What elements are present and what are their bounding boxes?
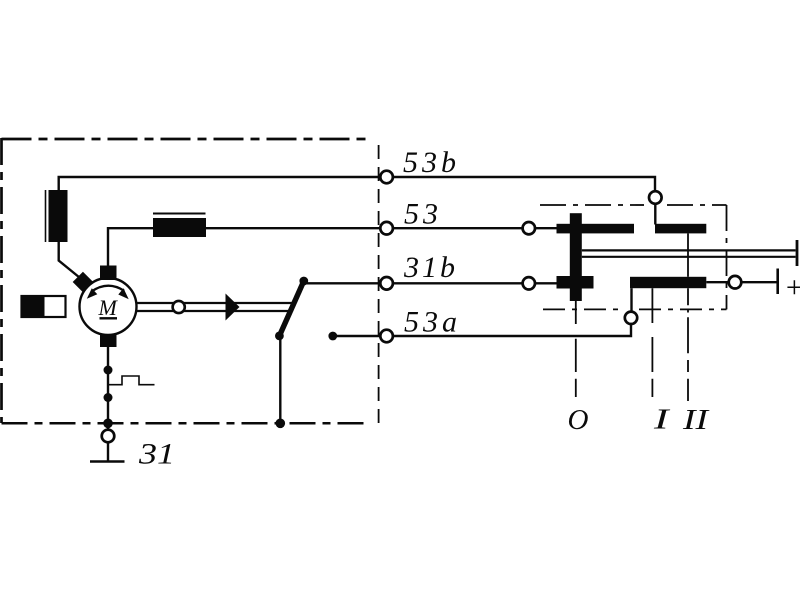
motor magnet block outline <box>22 296 66 317</box>
drive shaft double line upper <box>137 302 293 304</box>
svg-text:31b: 31b <box>403 251 455 284</box>
actuator rod lower line <box>582 256 796 258</box>
terminal 53 <box>380 222 393 235</box>
wire output terminal to battery bar <box>742 281 777 283</box>
contact bar 53b <box>655 224 706 234</box>
brush top <box>100 266 117 281</box>
switch terminal 53a bottom <box>625 312 637 324</box>
switch wire 31b into contact cross <box>535 282 557 284</box>
svg-text:M: M <box>98 295 119 320</box>
unit box bottom border <box>2 422 369 425</box>
motor magnet block filled half <box>22 296 45 317</box>
terminal 31 (ground) <box>102 430 115 443</box>
terminal 53a <box>380 330 393 343</box>
switch box right border <box>726 205 728 309</box>
rotation arrowhead right <box>118 288 128 299</box>
shaft joint circle <box>173 301 185 313</box>
junction dot lever on border <box>276 419 286 429</box>
brush bottom <box>100 335 117 348</box>
motor body M1 <box>80 278 137 335</box>
wire 31b terminal to switch <box>393 282 523 284</box>
battery feed end bar <box>776 269 779 295</box>
motor letter underline <box>100 317 118 319</box>
wire 53 terminal to switch <box>393 227 523 229</box>
lever pivot dot bottom <box>275 332 284 341</box>
junction dot ground on border <box>103 419 113 429</box>
svg-text:II: II <box>682 405 711 436</box>
wire 53a dot to terminal and to switch circle riser <box>333 325 631 337</box>
terminal 31b <box>380 277 393 290</box>
actuator rod end bar <box>796 240 799 266</box>
terminal 53b <box>380 171 393 184</box>
svg-text:53b: 53b <box>403 146 456 179</box>
svg-text:O: O <box>568 405 589 436</box>
unit box right border (terminal strip) <box>378 145 380 424</box>
switch box top border <box>540 204 644 206</box>
suppression choke L1 (vertical) core line <box>45 190 47 242</box>
suppression choke L1 body <box>49 190 68 242</box>
contact bar 31b-53a <box>630 277 706 288</box>
park switch lever <box>279 281 303 336</box>
position line O dashes <box>575 301 577 397</box>
drive direction arrow <box>226 294 240 321</box>
contact cross bar 31b <box>557 276 594 289</box>
drive shaft double line lower <box>137 310 290 312</box>
svg-text:+: + <box>784 271 800 304</box>
position line II upper segment <box>687 233 689 276</box>
contact bridge vertical bar <box>570 213 582 301</box>
switch terminal 53 left <box>523 222 535 234</box>
wire 53b horizontal <box>59 177 655 191</box>
junction dot 53a <box>328 332 337 341</box>
wire choke L1 to diamond contact <box>59 242 80 278</box>
rotation arc <box>92 286 125 292</box>
position line I dashes <box>651 288 653 397</box>
wire 53b drop to switch bar <box>654 204 656 224</box>
svg-text:53a: 53a <box>404 306 457 339</box>
unit box left border <box>0 138 3 423</box>
rotation arrowhead left <box>87 288 98 299</box>
suppression choke L2 (horizontal) core line <box>153 213 206 215</box>
ground bar 31 <box>90 460 125 463</box>
wire big bar to output terminal <box>706 281 728 283</box>
switch terminal 31b left <box>523 277 535 289</box>
commutator diamond <box>73 272 94 293</box>
lever pivot dot top <box>299 277 308 286</box>
suppression choke L2 body <box>153 218 206 237</box>
switch wire 53 into contact bar <box>535 227 557 229</box>
switch box bottom border <box>543 308 623 310</box>
switch output terminal <box>729 276 742 289</box>
svg-text:31: 31 <box>138 438 175 471</box>
park cam step symbol <box>109 376 155 385</box>
riser big bar to 53a circle <box>630 288 632 311</box>
wire 31b lever to terminal <box>304 282 380 284</box>
position line II lower dashes <box>687 288 689 401</box>
wire 53 choke L2 to terminal <box>206 227 380 229</box>
contact bar 53 <box>557 224 635 234</box>
actuator rod upper line <box>582 249 796 251</box>
ground terminal stem <box>107 443 109 461</box>
park lever drop wire <box>279 336 281 424</box>
motor ground wire down <box>107 347 109 430</box>
switch terminal 53b top <box>649 191 662 204</box>
junction dot ground lower <box>104 393 113 402</box>
unit box top border <box>2 138 371 141</box>
svg-text:I: I <box>652 405 671 436</box>
junction dot ground upper <box>104 366 113 375</box>
wire motor brush to choke L2 <box>108 228 153 266</box>
